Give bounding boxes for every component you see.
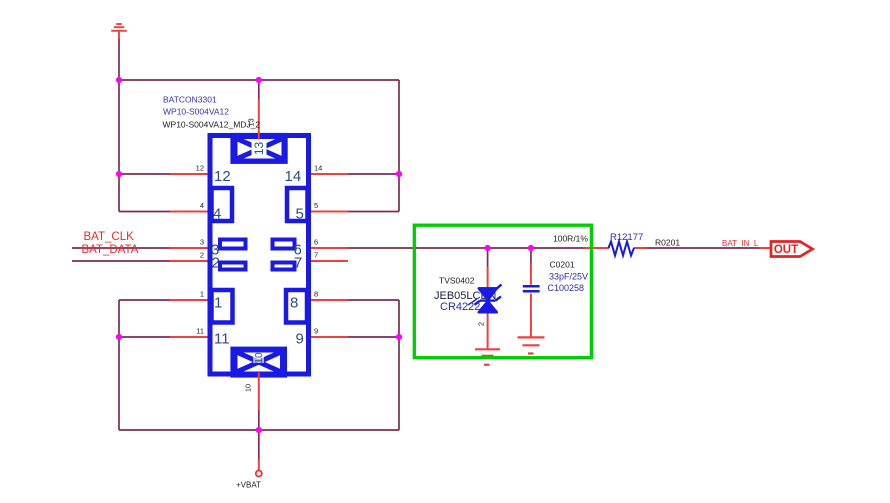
svg-text:2: 2 bbox=[200, 251, 204, 260]
svg-text:10: 10 bbox=[254, 352, 265, 364]
svg-text:8: 8 bbox=[290, 295, 298, 312]
svg-text:4: 4 bbox=[213, 206, 221, 223]
svg-text:5: 5 bbox=[296, 206, 304, 223]
svg-text:14: 14 bbox=[285, 168, 302, 185]
svg-text:100R/1%: 100R/1% bbox=[553, 234, 588, 244]
svg-text:+VBAT: +VBAT bbox=[236, 481, 261, 490]
svg-text:2: 2 bbox=[212, 255, 220, 272]
svg-text:C100258: C100258 bbox=[548, 283, 585, 293]
svg-text:9: 9 bbox=[296, 331, 304, 348]
svg-text:4: 4 bbox=[200, 201, 204, 210]
svg-text:3: 3 bbox=[200, 238, 204, 247]
svg-text:9: 9 bbox=[314, 327, 318, 336]
svg-text:1: 1 bbox=[214, 295, 222, 312]
svg-text:14: 14 bbox=[314, 164, 322, 173]
svg-text:12: 12 bbox=[196, 164, 204, 173]
svg-text:BAT_DATA: BAT_DATA bbox=[82, 244, 139, 256]
svg-text:33pF/25V: 33pF/25V bbox=[549, 272, 588, 282]
svg-text:R12177: R12177 bbox=[610, 232, 643, 243]
svg-text:13: 13 bbox=[252, 142, 266, 156]
svg-text:R0201: R0201 bbox=[655, 238, 680, 248]
svg-text:11: 11 bbox=[214, 331, 230, 348]
svg-text:BATCON3301: BATCON3301 bbox=[163, 94, 217, 104]
svg-text:7: 7 bbox=[294, 255, 302, 272]
svg-text:8: 8 bbox=[314, 290, 318, 299]
svg-text:BAT_IN_L: BAT_IN_L bbox=[722, 239, 759, 248]
svg-text:C0201: C0201 bbox=[550, 260, 575, 270]
svg-text:TVS0402: TVS0402 bbox=[439, 276, 475, 286]
svg-text:WP10-S004VA12_MDJ_2: WP10-S004VA12_MDJ_2 bbox=[163, 120, 261, 130]
svg-text:10: 10 bbox=[244, 384, 253, 392]
svg-text:6: 6 bbox=[314, 238, 318, 247]
svg-text:11: 11 bbox=[196, 327, 204, 336]
svg-text:7: 7 bbox=[314, 251, 318, 260]
svg-text:WP10-S004VA12: WP10-S004VA12 bbox=[163, 107, 229, 117]
svg-text:1: 1 bbox=[200, 290, 204, 299]
svg-text:5: 5 bbox=[314, 201, 318, 210]
svg-text:12: 12 bbox=[214, 168, 231, 185]
svg-text:OUT: OUT bbox=[774, 244, 798, 256]
svg-text:CR4222: CR4222 bbox=[440, 301, 480, 313]
svg-text:2: 2 bbox=[477, 322, 486, 326]
svg-text:BAT_CLK: BAT_CLK bbox=[84, 231, 135, 243]
